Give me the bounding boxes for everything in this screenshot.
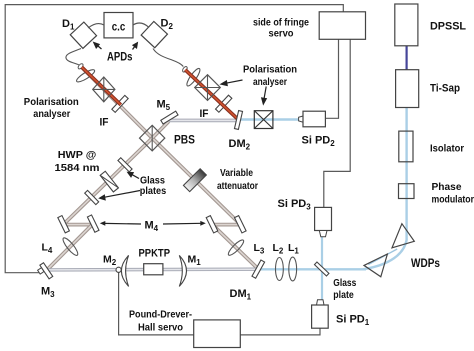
beam: refracted chord in WDP prisms (368, 249, 397, 265)
crystal PPKTP (144, 264, 163, 275)
arrow Polarisation analyser to cube (262, 87, 267, 105)
label Polarisation analyser (left) (24, 97, 79, 120)
beam: PBS to right dogleg through attenuator (152, 138, 240, 224)
svg-text:servo: servo (269, 29, 294, 40)
label HWP @ 1584 nm (55, 149, 100, 174)
polariser cube before Si PD2 (254, 111, 273, 129)
svg-text:WDPs: WDPs (411, 258, 440, 270)
svg-text:IF: IF (100, 117, 109, 129)
svg-text:Polarisation: Polarisation (243, 65, 297, 76)
fold mirror right dogleg B (235, 216, 247, 233)
label Glass plates (140, 176, 167, 198)
cavity mirror M1 (179, 255, 186, 286)
beam: D2 arm diagonal (fiber to DM2, under red) (185, 70, 238, 120)
svg-text:M4: M4 (145, 220, 159, 234)
prism WDP lower (364, 254, 387, 277)
wire: fringe servo to Si PD2 (326, 39, 339, 118)
beam: blue Ti-Sap down through isolator and phase modulator, curving in WDPs (363, 107, 407, 269)
mirror M5 (161, 111, 178, 124)
svg-text:modulator: modulator (432, 194, 474, 206)
label: side of fringe servo (253, 18, 309, 40)
svg-text:PBS: PBS (174, 133, 195, 147)
wire: Si PD1 to Pound-Drever-Hall servo (240, 328, 320, 335)
beam: dogleg to DM1 through L3 (212, 224, 258, 269)
wire: fringe servo to Si PD3 (324, 39, 350, 207)
svg-text:L3: L3 (254, 242, 265, 256)
glass plate 2 (lower) (85, 190, 99, 204)
photodiode Si PD1 (312, 300, 329, 328)
svg-text:M1: M1 (188, 254, 202, 268)
arrow APDs to D2 (133, 43, 138, 50)
svg-text:D1: D1 (62, 18, 75, 32)
fiber tip 2 (182, 66, 189, 73)
photodiode Si PD3 (315, 207, 332, 236)
beamsplitter PBS diamond (140, 125, 165, 151)
beam: blue vertical Si PD3 to Si PD1 through glass plate (321, 237, 323, 300)
wire: c.c to D2 (133, 23, 149, 28)
lens L3 (227, 238, 246, 257)
wire: Pound-Drever-Hall servo to M2 (119, 272, 194, 335)
lens L4 (61, 236, 80, 257)
fringe servo box (319, 12, 365, 40)
svg-text:M3: M3 (41, 286, 55, 300)
dichroic mirror DM1 (252, 260, 265, 278)
svg-text:D2: D2 (161, 18, 174, 32)
beam: blue DM2 to Si PD2 (240, 118, 299, 120)
label Phase modulator (432, 181, 474, 206)
isolator box (399, 131, 413, 162)
half-wave plate HWP (100, 171, 118, 192)
label Glass plate (333, 277, 356, 301)
svg-text:APDs: APDs (107, 50, 133, 64)
prism WDP upper (392, 224, 414, 248)
svg-text:Si PD2: Si PD2 (302, 135, 336, 149)
svg-text:HWP @: HWP @ (58, 149, 97, 161)
svg-text:M5: M5 (157, 99, 171, 113)
detector D1 (70, 22, 96, 48)
arrow plates to plate 2 (99, 191, 140, 200)
svg-text:Isolator: Isolator (430, 143, 464, 155)
beam: pump DPSSL to Ti-Sap (406, 46, 408, 70)
interference filter IF (right bar) (216, 95, 232, 112)
laser Ti-Sap box (396, 70, 419, 108)
detector D2 (141, 21, 167, 47)
label Variable attenuator (217, 167, 258, 192)
phase modulator box (399, 184, 415, 199)
arrow Polarisation analyser to diamond (221, 80, 243, 86)
svg-text:Phase: Phase (432, 181, 462, 193)
lens on D1 arm (75, 68, 96, 84)
beam: cavity axis M3 to DM1 (45, 268, 258, 272)
fold mirror left dogleg A (58, 216, 70, 233)
lens L1 (289, 257, 297, 281)
arrow APDs to D1 (94, 42, 102, 49)
svg-text:L1: L1 (288, 242, 299, 256)
svg-text:L4: L4 (42, 242, 53, 256)
svg-text:Hall servo: Hall servo (138, 323, 183, 334)
svg-text:attenuator: attenuator (217, 180, 258, 192)
svg-text:Polarisation: Polarisation (24, 97, 79, 108)
svg-text:side of fringe: side of fringe (253, 18, 309, 29)
fold mirror left dogleg B (87, 215, 99, 232)
wire: M3 around border to fringe servo (5, 5, 343, 273)
red beam D2 arm (185, 70, 238, 120)
wire: D1 to c.c (88, 24, 104, 28)
svg-text:Glass: Glass (140, 176, 165, 187)
glass plate pickoff (314, 262, 328, 276)
laser DPSSL box (395, 4, 418, 46)
svg-text:M2: M2 (103, 254, 117, 268)
svg-text:DM2: DM2 (229, 138, 251, 152)
svg-text:c.c: c.c (112, 19, 126, 33)
svg-text:Variable: Variable (220, 167, 253, 179)
fiber tip 1 (77, 63, 84, 70)
mirror M3 with piezo tab (38, 263, 53, 279)
svg-text:Glass: Glass (333, 277, 356, 289)
glass plate 1 (upper) (118, 158, 132, 172)
svg-text:plate: plate (333, 289, 354, 301)
beam: right dogleg horizontal (212, 223, 240, 227)
svg-text:Pound-Drever-: Pound-Drever- (129, 310, 192, 321)
pivot circle M2 mount (116, 267, 121, 272)
fiber curve D1 (66, 49, 81, 65)
svg-text:Si PD1: Si PD1 (336, 314, 370, 328)
interference filter IF (left bar) (112, 95, 128, 112)
red beam D1 arm (82, 67, 121, 105)
label Polarisation analyser (right) (243, 65, 297, 89)
label: Pound-Drever-Hall servo (129, 310, 192, 334)
beam: M5 to DM2 horizontal (169, 119, 237, 123)
svg-text:analyser: analyser (33, 109, 70, 120)
svg-text:Ti-Sap: Ti-Sap (430, 83, 460, 95)
beam: left dogleg horizontal (64, 223, 94, 227)
beam: PBS to M5 (152, 121, 169, 138)
variable attenuator (183, 169, 206, 192)
photodiode Si PD2 (299, 111, 326, 127)
svg-text:1584 nm: 1584 nm (55, 162, 100, 174)
dichroic mirror DM2 (234, 111, 242, 130)
lens L2 (276, 258, 284, 281)
coincidence counter c.c box (104, 13, 133, 38)
fold mirror right dogleg A (206, 216, 218, 233)
label M4 with arrows (100, 220, 206, 234)
svg-text:Si PD3: Si PD3 (278, 198, 312, 212)
fiber curve D2 (153, 49, 183, 67)
Pound-Drever-Hall servo box (194, 320, 241, 348)
beam: blue DM1 to WDPs horizontal (259, 268, 366, 270)
svg-text:analyser: analyser (253, 77, 287, 88)
svg-text:DPSSL: DPSSL (430, 21, 466, 33)
polarisation analyser prism (left diamond) (93, 77, 115, 102)
beam: D1 arm diagonal (fiber to PBS) (82, 67, 153, 138)
beam: dogleg to M3 through L4 (46, 224, 93, 271)
svg-text:L2: L2 (273, 242, 284, 256)
svg-text:PPKTP: PPKTP (139, 248, 171, 260)
svg-text:plates: plates (140, 186, 167, 197)
lens on D2 arm (185, 67, 202, 88)
svg-text:DM1: DM1 (230, 288, 252, 302)
polarisation analyser prism (right diamond) (195, 75, 221, 101)
arrow Glass to plate 1 (128, 172, 139, 178)
cavity mirror M2 (121, 255, 128, 286)
svg-text:IF: IF (200, 108, 209, 120)
beam: PBS to left dogleg mirror (64, 138, 153, 224)
